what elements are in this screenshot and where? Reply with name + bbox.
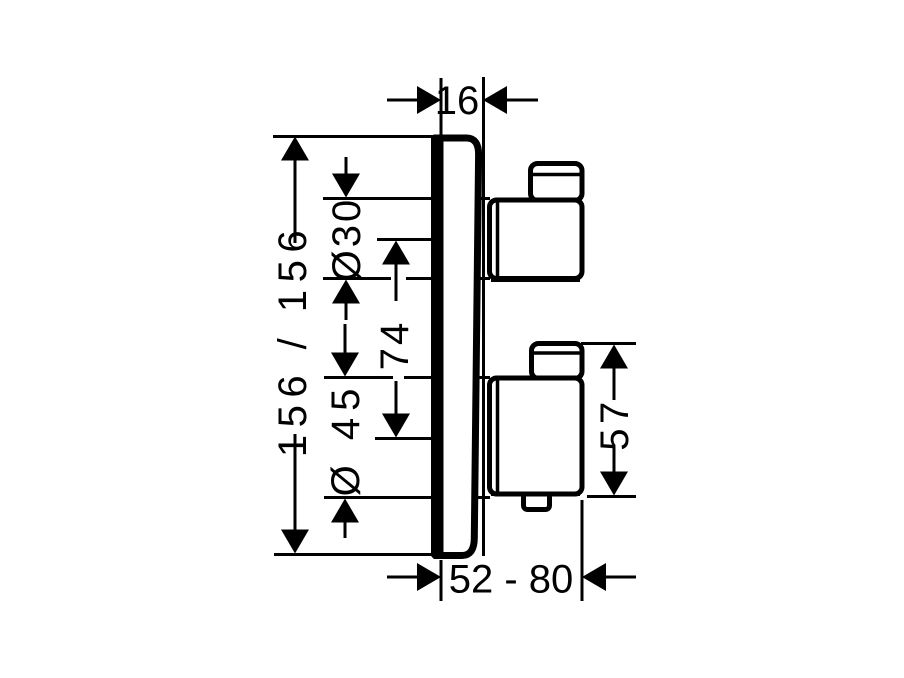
svg-text:74: 74 xyxy=(373,320,417,371)
svg-text:Ø 45: Ø 45 xyxy=(324,382,368,497)
svg-text:52 - 80: 52 - 80 xyxy=(449,558,574,602)
svg-text:Ø30: Ø30 xyxy=(325,197,369,282)
svg-text:57: 57 xyxy=(593,397,637,451)
svg-text:156 / 156: 156 / 156 xyxy=(271,223,315,457)
svg-text:16: 16 xyxy=(435,79,480,123)
